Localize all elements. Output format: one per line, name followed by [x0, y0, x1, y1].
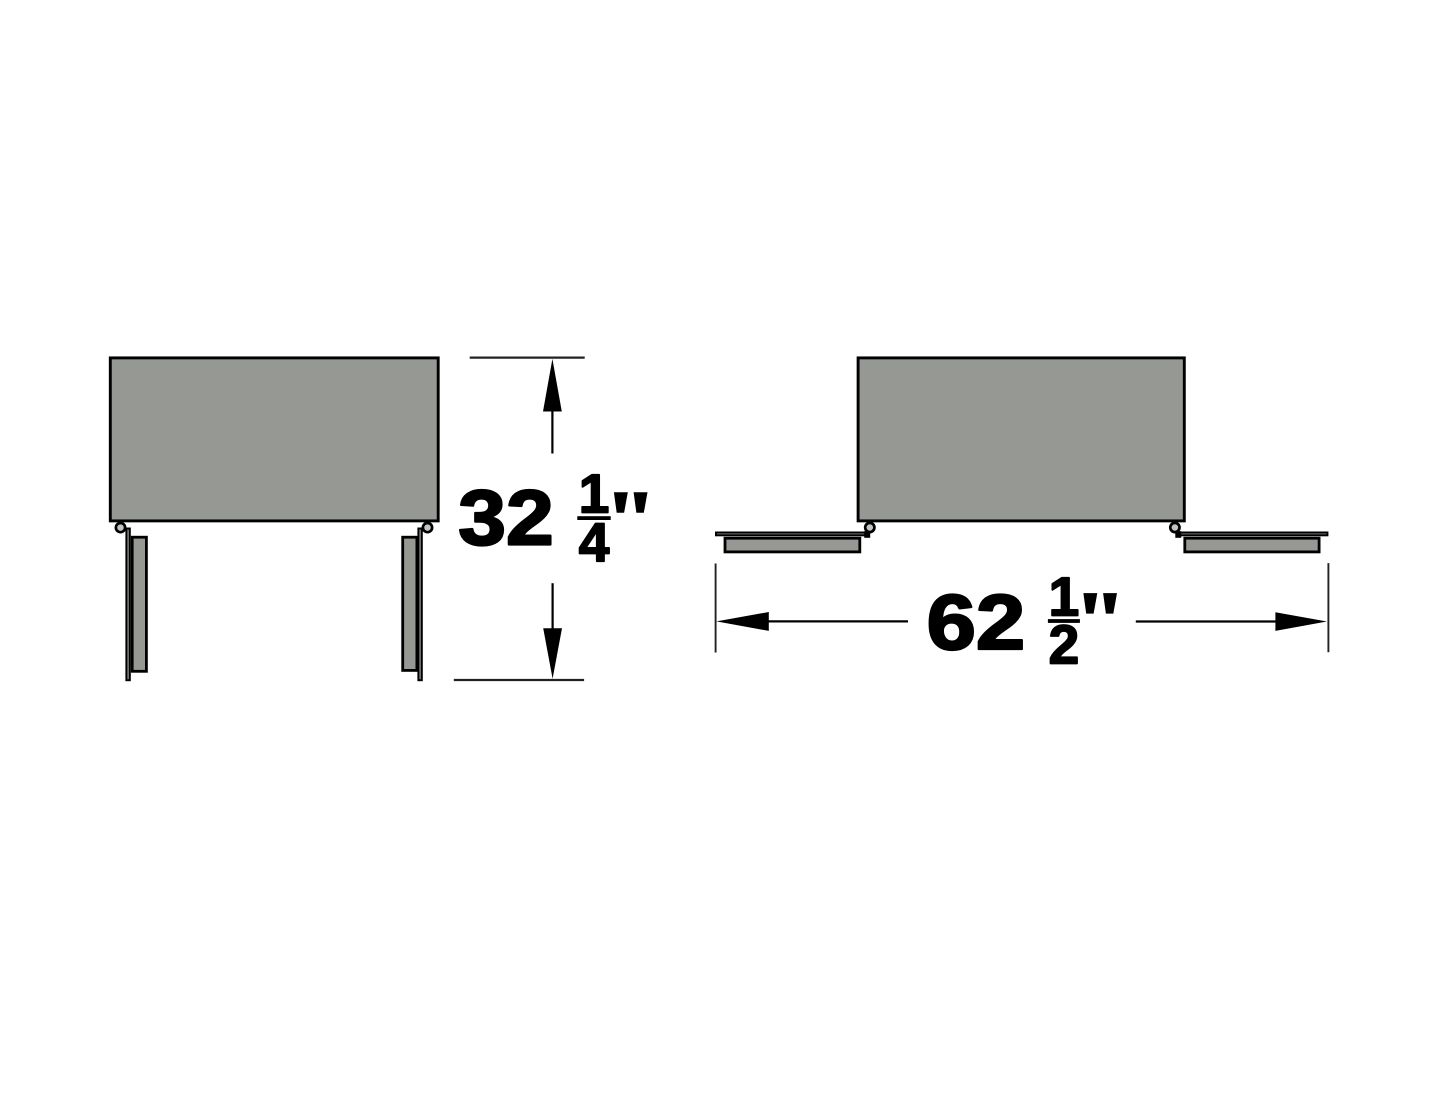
- right leg: [403, 537, 417, 670]
- up arrow stem: [551, 410, 553, 454]
- right dim line segment: [1136, 620, 1277, 622]
- inch double prime: [614, 492, 648, 513]
- left arrowhead: [716, 612, 768, 631]
- tabletop (front view): [858, 358, 1184, 521]
- svg-text:2: 2: [1049, 613, 1080, 675]
- left foot: [725, 538, 860, 552]
- down arrowhead: [543, 628, 562, 679]
- left leg: [132, 537, 146, 671]
- fraction bar: [577, 516, 610, 520]
- svg-text:32: 32: [458, 475, 553, 562]
- dimension 62 1/2": left extension line: [715, 564, 717, 653]
- label 62: [927, 578, 1026, 666]
- left dim line segment: [767, 620, 908, 622]
- right arrowhead: [1275, 612, 1327, 631]
- right leg plate (thin bar): [418, 529, 421, 681]
- inch double prime: [1083, 593, 1117, 614]
- up arrowhead: [543, 359, 562, 412]
- right hinge: [1175, 531, 1181, 538]
- dimension 32 1/4": top extension line: [470, 356, 585, 358]
- left hinge: [864, 531, 870, 538]
- dimension 32 1/4": bottom extension line: [454, 679, 584, 681]
- tabletop (side view): [110, 358, 438, 521]
- left hinge: [116, 523, 125, 532]
- down arrow stem: [551, 583, 553, 629]
- right hinge: [423, 523, 432, 532]
- svg-text:62: 62: [927, 578, 1026, 666]
- right foot plate (thin bar): [1177, 533, 1328, 536]
- dimension 62 1/2": right extension line: [1327, 563, 1329, 652]
- left foot plate (thin bar): [716, 533, 868, 536]
- label 32: [458, 475, 553, 562]
- left leg plate (thin bar): [126, 529, 129, 681]
- svg-text:4: 4: [579, 511, 610, 573]
- right foot: [1185, 538, 1319, 552]
- fraction bar: [1048, 619, 1080, 623]
